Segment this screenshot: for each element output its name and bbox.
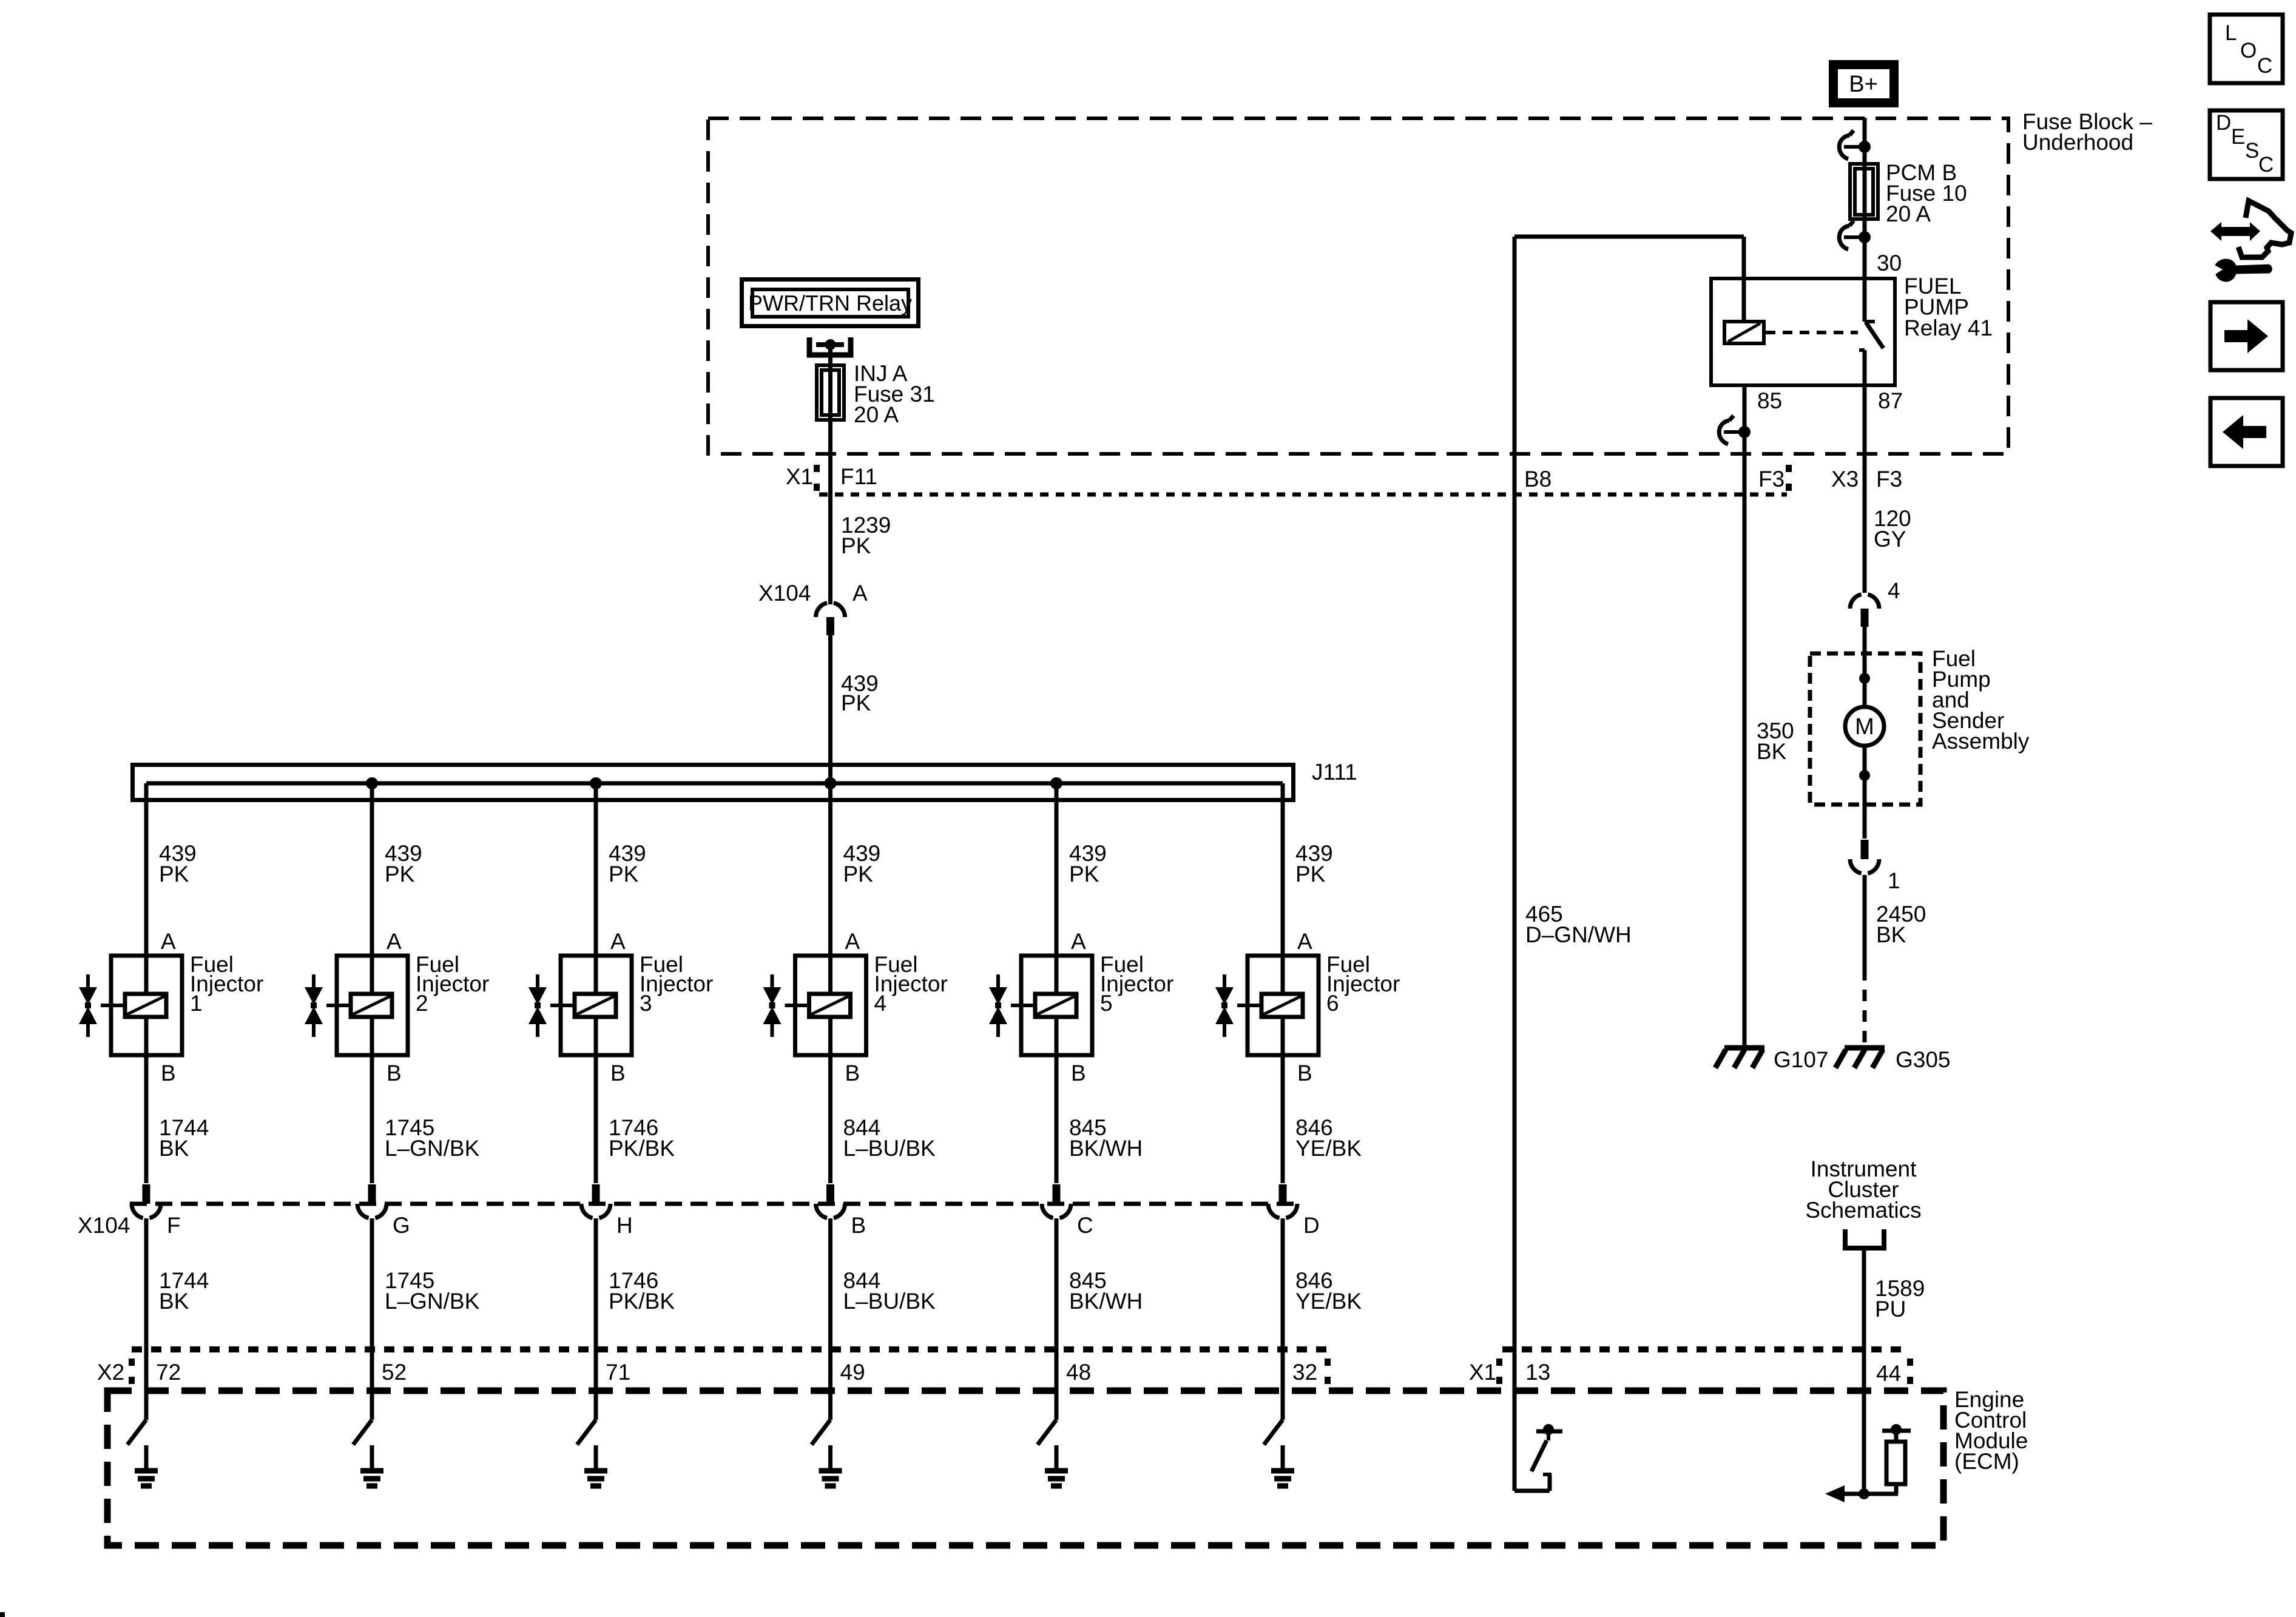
svg-text:30: 30 [1877,251,1902,275]
svg-text:2: 2 [416,991,428,1016]
svg-text:BK: BK [1757,739,1787,764]
svg-text:49: 49 [840,1360,865,1385]
svg-text:O: O [2240,39,2257,62]
svg-text:PK: PK [385,862,415,886]
svg-text:PK/BK: PK/BK [609,1136,675,1161]
svg-text:B+: B+ [1849,72,1878,97]
svg-text:71: 71 [606,1360,630,1385]
svg-text:PK: PK [1295,862,1326,886]
svg-text:L–GN/BK: L–GN/BK [385,1289,480,1314]
svg-text:C: C [2258,153,2274,177]
svg-text:44: 44 [1876,1361,1901,1386]
svg-text:L–BU/BK: L–BU/BK [843,1289,936,1314]
svg-text:A: A [387,929,402,954]
svg-text:BK: BK [159,1289,189,1314]
svg-text:X104: X104 [758,581,811,606]
svg-text:13: 13 [1525,1360,1550,1385]
svg-text:L–BU/BK: L–BU/BK [843,1136,936,1161]
svg-text:Schematics: Schematics [1805,1198,1921,1223]
svg-text:A: A [610,929,626,954]
svg-text:1: 1 [190,991,203,1016]
svg-text:B: B [1297,1061,1312,1085]
svg-text:Relay 41: Relay 41 [1904,316,1993,340]
svg-text:1: 1 [1888,868,1900,893]
svg-text:BK/WH: BK/WH [1069,1136,1143,1161]
svg-text:F3: F3 [1876,467,1902,491]
svg-text:20 A: 20 A [1886,201,1931,226]
svg-text:X104: X104 [78,1213,130,1238]
svg-text:B: B [851,1213,866,1238]
svg-text:4: 4 [1888,578,1900,603]
svg-text:X3: X3 [1831,467,1859,491]
svg-text:YE/BK: YE/BK [1295,1136,1362,1161]
svg-text:PU: PU [1875,1297,1906,1322]
svg-text:B8: B8 [1524,467,1551,491]
svg-text:L: L [2225,21,2237,45]
svg-text:F: F [167,1213,181,1238]
svg-text:B: B [161,1061,176,1085]
svg-text:87: 87 [1878,388,1903,413]
svg-text:E: E [2231,125,2245,149]
svg-text:PK: PK [843,862,874,886]
svg-text:D–GN/WH: D–GN/WH [1525,922,1632,947]
svg-text:G: G [393,1213,410,1238]
svg-text:D: D [2216,111,2231,135]
svg-text:GY: GY [1874,527,1906,552]
svg-text:G305: G305 [1896,1047,1951,1072]
svg-text:85: 85 [1757,388,1782,413]
svg-text:A: A [845,929,860,954]
svg-text:M: M [1855,714,1874,740]
svg-text:Assembly: Assembly [1932,729,2030,754]
svg-text:PWR/TRN Relay: PWR/TRN Relay [748,291,912,316]
svg-text:B: B [387,1061,402,1085]
svg-text:F3: F3 [1758,467,1784,491]
svg-text:PK: PK [159,862,189,886]
svg-text:PK: PK [609,862,639,886]
svg-text:5: 5 [1100,991,1113,1016]
svg-text:B: B [610,1061,626,1085]
svg-text:X1: X1 [1469,1360,1496,1385]
svg-text:L–GN/BK: L–GN/BK [385,1136,480,1161]
svg-text:B: B [845,1061,860,1085]
svg-text:32: 32 [1292,1360,1317,1385]
svg-text:G107: G107 [1774,1047,1829,1072]
svg-text:S: S [2245,139,2259,163]
svg-text:(ECM): (ECM) [1954,1449,2019,1474]
svg-text:52: 52 [382,1360,407,1385]
svg-text:YE/BK: YE/BK [1295,1289,1362,1314]
svg-text:H: H [616,1213,633,1238]
svg-text:A: A [1071,929,1086,954]
svg-text:PK: PK [841,533,871,558]
svg-text:BK: BK [159,1136,189,1161]
svg-text:Underhood: Underhood [2022,130,2133,155]
svg-text:PK: PK [1069,862,1099,886]
svg-text:3: 3 [640,991,652,1016]
svg-text:BK/WH: BK/WH [1069,1289,1143,1314]
svg-text:PK/BK: PK/BK [609,1289,675,1314]
svg-text:72: 72 [156,1360,181,1385]
svg-text:J111: J111 [1312,760,1357,785]
svg-text:20 A: 20 A [854,402,899,427]
svg-text:A: A [853,581,868,606]
svg-text:X1: X1 [786,464,813,489]
svg-text:BK: BK [1876,922,1906,947]
svg-text:C: C [2257,54,2272,78]
svg-text:48: 48 [1066,1360,1091,1385]
svg-text:X2: X2 [97,1360,124,1385]
svg-text:C: C [1077,1213,1093,1238]
svg-text:PK: PK [841,690,871,715]
svg-text:A: A [1297,929,1312,954]
svg-text:F11: F11 [840,464,877,489]
svg-text:D: D [1303,1213,1320,1238]
svg-text:6: 6 [1326,991,1339,1016]
svg-text:B: B [1071,1061,1086,1085]
svg-text:A: A [161,929,176,954]
svg-text:4: 4 [874,991,887,1016]
